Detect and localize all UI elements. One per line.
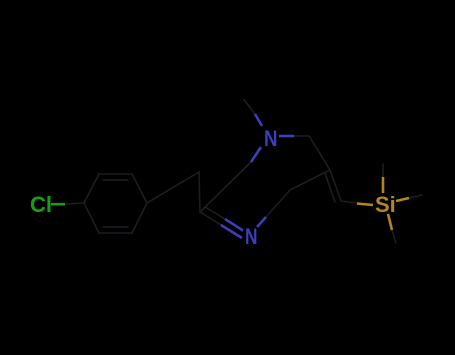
svg-text:N: N: [245, 224, 258, 249]
svg-text:Cl: Cl: [30, 192, 52, 217]
svg-text:Si: Si: [375, 192, 396, 217]
svg-text:N: N: [264, 126, 278, 151]
